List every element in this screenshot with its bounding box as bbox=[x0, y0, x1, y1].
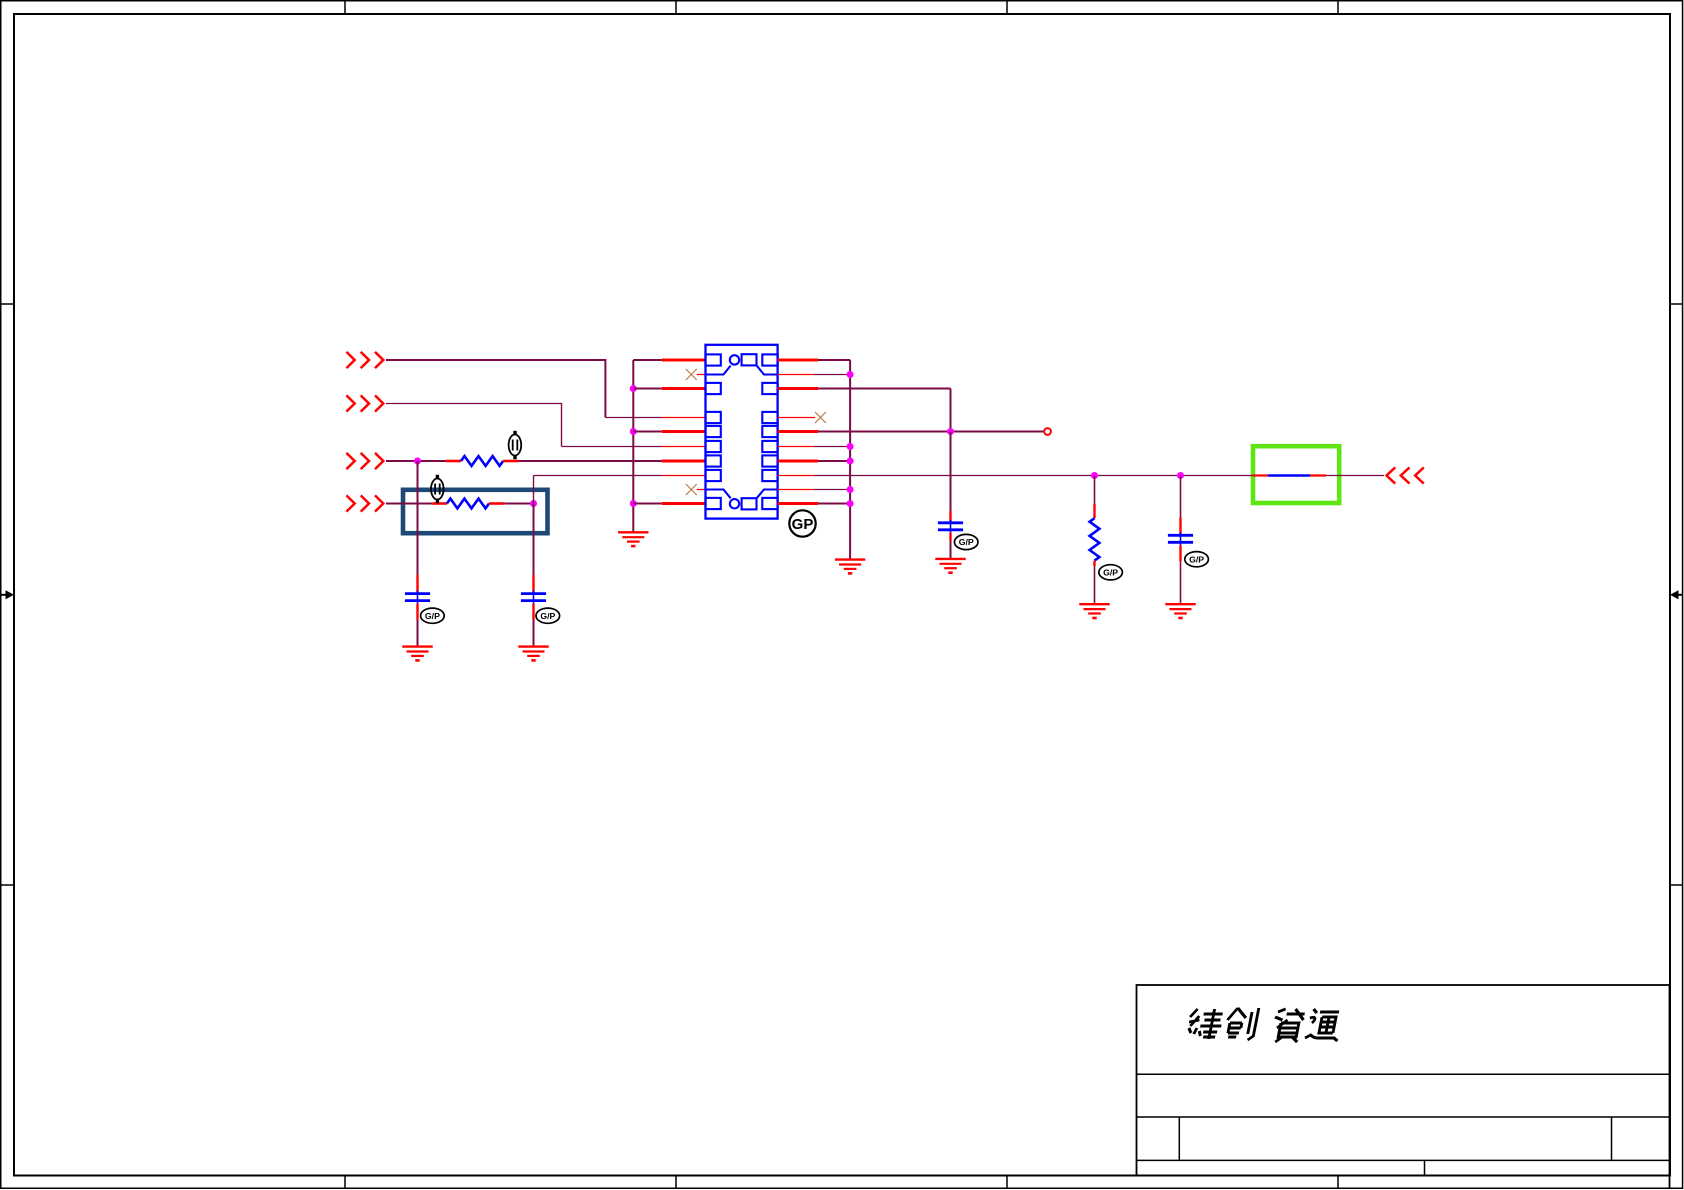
left bus branch to U1 pin row 5 bbox=[633, 431, 705, 433]
svg-text:G/P: G/P bbox=[959, 537, 974, 547]
long output wire row8 bbox=[778, 475, 1384, 477]
ground under C1 bbox=[402, 647, 432, 661]
wire D from R2 to junction bbox=[505, 503, 534, 505]
green highlight box bbox=[1253, 446, 1339, 503]
svg-text:G/P: G/P bbox=[425, 611, 440, 621]
wire C2 to ground bbox=[532, 604, 534, 647]
svg-text:G/P: G/P bbox=[540, 611, 555, 621]
left bus branch to U1 pin row 1 bbox=[633, 359, 705, 361]
G/P label for C2 bbox=[536, 608, 560, 623]
wire C3 to ground bbox=[949, 533, 951, 559]
node long wire R3 junction bbox=[1091, 472, 1098, 479]
node right bus row9 bbox=[847, 486, 854, 493]
wire D from input D to resistor R2 bbox=[386, 503, 432, 505]
node right bus row2 bbox=[847, 371, 854, 378]
capacitor C1 bbox=[405, 591, 430, 604]
G/P label for C1 bbox=[421, 608, 445, 623]
left bus branch to U1 pin row 10 bbox=[633, 503, 705, 505]
U1 right pin row1 stub to right bus bbox=[778, 359, 851, 362]
U1 right pin row2 stub bbox=[778, 374, 851, 376]
wire C1 to ground bbox=[416, 604, 418, 647]
wire B from input B to U1 pin row 6 bbox=[386, 404, 706, 447]
wire U1 row3 to C3 branch corner bbox=[778, 389, 951, 432]
node right bus row7 bbox=[847, 457, 854, 464]
U1 right pin row6 stub bbox=[778, 446, 851, 448]
node left bus row10 bbox=[630, 500, 637, 507]
node right bus row10 bbox=[847, 500, 854, 507]
resistor R3 bbox=[1090, 518, 1100, 560]
G/P label for R3 bbox=[1099, 565, 1123, 580]
wire from D-junction up to U1 pin row 8 bbox=[534, 476, 706, 504]
company logo text (Wistron CJK) bbox=[1185, 1008, 1344, 1042]
connector input B (>>>) bbox=[346, 395, 383, 411]
wire C4 to ground bbox=[1179, 545, 1181, 604]
no-connect open circle bbox=[1044, 428, 1051, 435]
connector output E (<<<) bbox=[1387, 467, 1424, 483]
jumper inside green box bbox=[1253, 474, 1327, 476]
wire C from input C to resistor R1 bbox=[386, 460, 446, 462]
no-connect X on U1 left pin row 9 bbox=[686, 484, 706, 495]
no-connect X on U1 left pin row 2 bbox=[686, 369, 706, 380]
wire down to resistor R3 bbox=[1094, 476, 1096, 519]
wire U1 row5 to no-connect circle bbox=[778, 430, 1044, 433]
tiny designator label for R1 bbox=[509, 431, 522, 459]
node left bus row5 bbox=[630, 428, 637, 435]
capacitor C4 bbox=[1168, 532, 1193, 545]
connector input D (>>>) bbox=[346, 495, 383, 511]
ground under R3 bbox=[1079, 604, 1109, 618]
U1 right pin row10 stub bbox=[778, 502, 851, 505]
svg-text:G/P: G/P bbox=[1189, 554, 1204, 564]
navy highlight box bbox=[403, 490, 548, 533]
wire C from R1 to U1 pin row 7 bbox=[519, 460, 706, 462]
ground under C3 bbox=[935, 559, 965, 573]
no-connect X on U1 right pin row 4 bbox=[778, 412, 826, 423]
ground under C2 bbox=[518, 647, 548, 661]
G/P label for C3 bbox=[954, 534, 978, 549]
node long wire C4 junction bbox=[1177, 472, 1184, 479]
resistor R2 bbox=[432, 499, 505, 509]
wire R3 to ground bbox=[1093, 561, 1095, 605]
connector input A (>>>) bbox=[346, 352, 383, 368]
wire A from input A to U1 pin row 4 bbox=[386, 360, 706, 418]
wire from D-junction down to capacitor C2 bbox=[533, 504, 535, 593]
ground under right bus bbox=[835, 560, 865, 574]
wire down to capacitor C4 bbox=[1180, 476, 1182, 535]
connector input C (>>>) bbox=[346, 453, 383, 469]
left bus branch to U1 pin row 3 bbox=[633, 388, 705, 390]
resistor R1 bbox=[446, 456, 519, 466]
node left bus row3 bbox=[630, 385, 637, 392]
tiny designator label for R2 bbox=[431, 475, 444, 503]
node D-junction bbox=[530, 500, 537, 507]
GP label for U1 bbox=[789, 510, 815, 536]
left bus wire to ground bbox=[632, 360, 634, 532]
node right bus row6 bbox=[847, 443, 854, 450]
wire down to capacitor C3 bbox=[950, 432, 952, 522]
ground under left bus bbox=[618, 532, 648, 546]
U1 right pin row7 stub bbox=[778, 460, 851, 463]
title block bbox=[1137, 985, 1670, 1188]
node C1-junction bbox=[414, 457, 421, 464]
right bus wire to ground bbox=[849, 360, 851, 560]
ground under C4 bbox=[1165, 604, 1195, 618]
U1 right pin row9 stub bbox=[778, 489, 851, 491]
capacitor C2 bbox=[521, 591, 546, 604]
node row5 C3 junction bbox=[947, 428, 954, 435]
capacitor C3 bbox=[938, 520, 963, 533]
svg-text:GP: GP bbox=[792, 516, 814, 533]
svg-text:G/P: G/P bbox=[1103, 568, 1118, 578]
connector U1 (blue dual-row) bbox=[706, 345, 778, 519]
G/P label for C4 bbox=[1185, 552, 1209, 567]
wire from C-junction down to capacitor C1 bbox=[417, 461, 419, 592]
